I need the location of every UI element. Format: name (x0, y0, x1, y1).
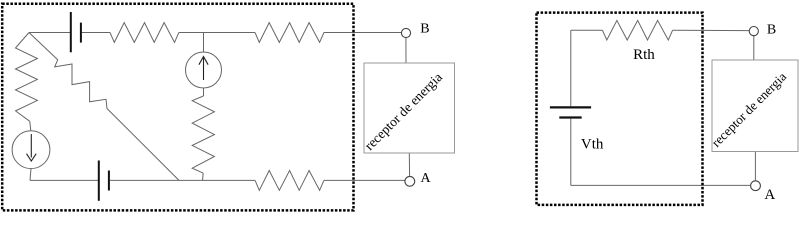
svg-text:A: A (421, 171, 432, 186)
svg-text:A: A (764, 187, 775, 203)
svg-text:Rth: Rth (633, 47, 655, 63)
svg-text:receptor de energia: receptor de energia (362, 70, 446, 154)
svg-text:Vth: Vth (581, 137, 604, 153)
svg-text:B: B (767, 23, 776, 38)
svg-text:B: B (420, 22, 429, 37)
svg-text:receptor de energia: receptor de energia (708, 69, 789, 150)
